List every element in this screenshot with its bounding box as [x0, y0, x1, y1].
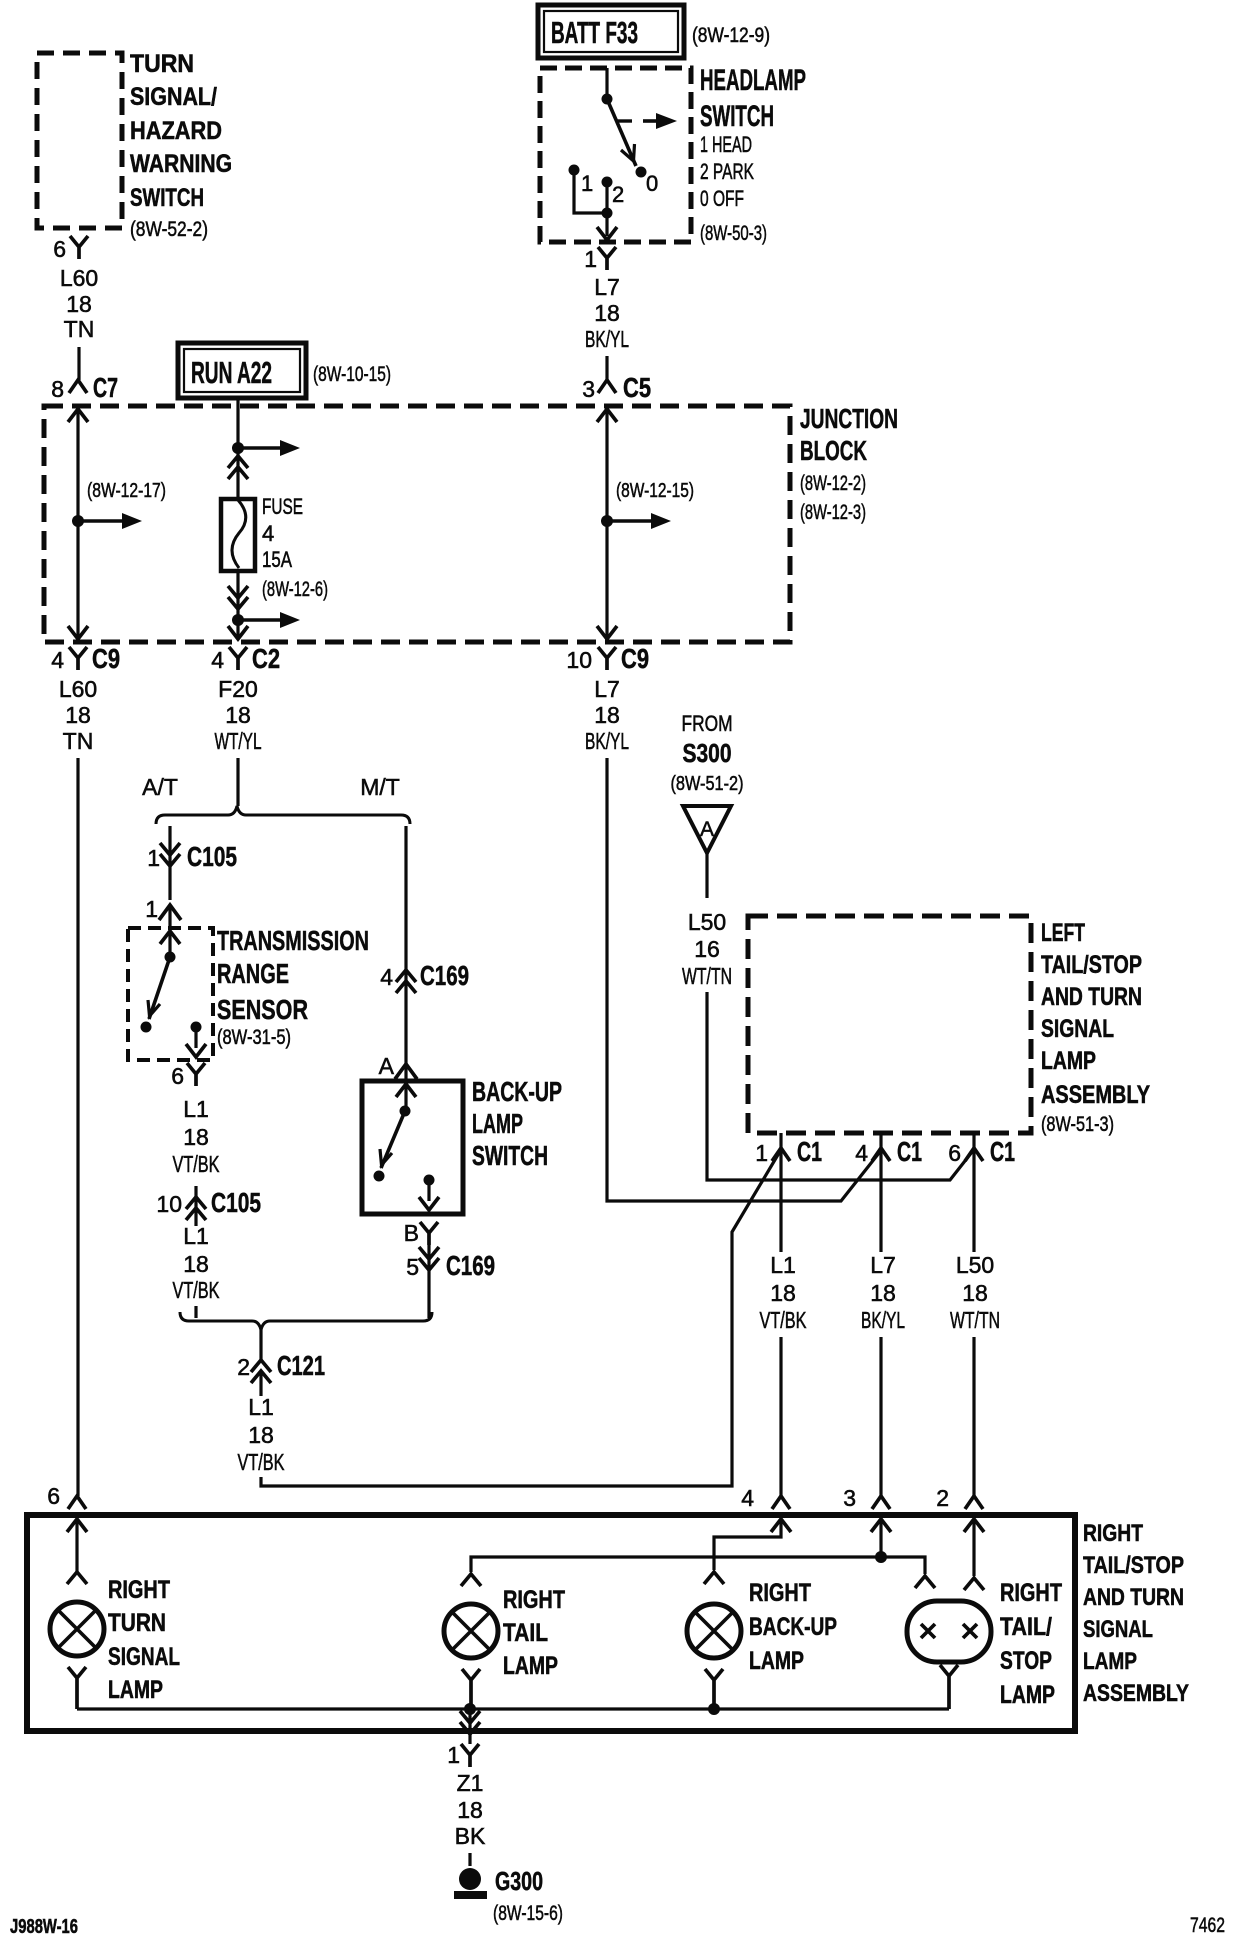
svg-text:TURN: TURN — [108, 1609, 166, 1637]
TRS common node — [165, 952, 176, 963]
svg-text:BK: BK — [455, 1823, 486, 1849]
connector symbol above fuse — [228, 456, 248, 479]
svg-text:(8W-51-3): (8W-51-3) — [1041, 1113, 1114, 1136]
connector 5 C169 — [419, 1247, 439, 1270]
wire M/T branch — [404, 826, 407, 1081]
svg-text:TRANSMISSION: TRANSMISSION — [217, 925, 369, 956]
back-up switch output contact — [424, 1175, 435, 1186]
svg-text:L1: L1 — [770, 1252, 796, 1278]
svg-text:VT/BK: VT/BK — [173, 1151, 220, 1177]
svg-text:(8W-12-6): (8W-12-6) — [262, 578, 328, 601]
turn signal/hazard warning switch (dashed box) — [37, 53, 122, 228]
svg-text:RANGE: RANGE — [217, 958, 289, 989]
svg-text:BACK-UP: BACK-UP — [472, 1076, 562, 1107]
svg-text:(8W-31-5): (8W-31-5) — [217, 1026, 291, 1049]
right tail/stop lamp (dual filament) — [907, 1601, 991, 1662]
transmission range sensor (dashed box) — [128, 928, 213, 1060]
ground bus junction (back-up lamp) — [708, 1703, 720, 1715]
headlamp switch common node — [602, 94, 613, 105]
svg-text:L60: L60 — [60, 265, 98, 291]
svg-text:BACK-UP: BACK-UP — [749, 1613, 837, 1641]
svg-text:L1: L1 — [183, 1223, 209, 1249]
wire L50 route — [707, 992, 972, 1180]
right turn signal lamp ground lead — [68, 1667, 86, 1709]
svg-text:SWITCH: SWITCH — [700, 100, 774, 133]
svg-text:FUSE: FUSE — [262, 494, 303, 519]
A/T M/T split brace — [156, 806, 410, 824]
svg-text:4: 4 — [262, 521, 274, 546]
svg-text:L7: L7 — [870, 1252, 896, 1278]
svg-text:ASSEMBLY: ASSEMBLY — [1041, 1081, 1150, 1109]
A/T M/T merge brace — [180, 1312, 432, 1330]
svg-text:18: 18 — [594, 300, 620, 326]
svg-text:10: 10 — [566, 647, 592, 673]
svg-text:TAIL: TAIL — [503, 1619, 548, 1647]
wire L1 from brace — [259, 1330, 262, 1396]
svg-text:5: 5 — [406, 1254, 419, 1280]
svg-text:6: 6 — [171, 1063, 184, 1089]
svg-text:LEFT: LEFT — [1041, 919, 1085, 947]
svg-text:STOP: STOP — [1000, 1647, 1052, 1675]
svg-text:SENSOR: SENSOR — [217, 994, 308, 1025]
svg-text:LAMP: LAMP — [1083, 1648, 1137, 1675]
TRS blade — [149, 957, 170, 1019]
connector 4 C169 — [396, 970, 416, 993]
junction block right branch node — [601, 515, 613, 527]
connector symbol below fuse — [228, 586, 248, 609]
wire A/T branch upper — [168, 826, 171, 900]
svg-text:Z1: Z1 — [457, 1770, 484, 1796]
svg-text:(8W-12-15): (8W-12-15) — [616, 480, 694, 502]
svg-text:0 OFF: 0 OFF — [700, 186, 744, 211]
svg-text:VT/BK: VT/BK — [238, 1449, 285, 1475]
svg-text:L50: L50 — [956, 1252, 994, 1278]
connector 1 C105 — [160, 843, 180, 866]
junction block left wire (C7 to C9) — [68, 409, 88, 422]
svg-text:6: 6 — [47, 1483, 60, 1509]
wire into transmission range sensor — [168, 905, 171, 928]
svg-text:C121: C121 — [277, 1350, 325, 1381]
TRS contact (moving end) — [141, 1022, 152, 1033]
svg-text:ASSEMBLY: ASSEMBLY — [1083, 1680, 1189, 1707]
wire L50 vertical segment — [972, 1148, 975, 1496]
svg-text:8: 8 — [51, 376, 64, 402]
TRS output wire — [194, 1031, 197, 1048]
connector 4 C1 — [879, 1133, 882, 1148]
svg-text:L1: L1 — [248, 1394, 274, 1420]
svg-text:J988W-16: J988W-16 — [10, 1916, 78, 1938]
back-up switch contact (moving end) — [374, 1171, 385, 1182]
connector 10 C105 — [186, 1197, 206, 1220]
svg-text:18: 18 — [770, 1280, 796, 1306]
svg-text:C5: C5 — [623, 372, 651, 403]
back-up switch input arrow — [396, 1084, 416, 1097]
svg-text:C1: C1 — [990, 1136, 1015, 1167]
svg-text:18: 18 — [870, 1280, 896, 1306]
svg-text:BK/YL: BK/YL — [585, 728, 629, 754]
headlamp terminal 2 — [602, 177, 613, 188]
connector 8 C7 — [69, 380, 87, 393]
svg-text:WT/TN: WT/TN — [950, 1307, 1000, 1333]
svg-text:WT/TN: WT/TN — [682, 963, 732, 989]
junction block left branch node — [72, 515, 84, 527]
svg-text:(8W-52-2): (8W-52-2) — [130, 218, 208, 241]
tail feed from pin 3 — [871, 1519, 891, 1532]
left tail/stop and turn signal lamp assembly (dashed box) — [748, 916, 1031, 1133]
svg-text:L7: L7 — [594, 274, 620, 300]
svg-text:4: 4 — [855, 1140, 868, 1166]
svg-text:RIGHT: RIGHT — [749, 1579, 811, 1607]
svg-text:(8W-51-2): (8W-51-2) — [671, 773, 744, 795]
svg-text:C7: C7 — [93, 372, 118, 403]
back-up switch blade — [381, 1111, 405, 1168]
svg-text:S300: S300 — [683, 738, 732, 768]
svg-text:RIGHT: RIGHT — [1083, 1520, 1143, 1547]
svg-text:L1: L1 — [183, 1096, 209, 1122]
ground drop wire — [468, 1709, 471, 1744]
right back-up lamp — [687, 1604, 741, 1658]
svg-text:18: 18 — [248, 1422, 274, 1448]
svg-text:HAZARD: HAZARD — [130, 117, 222, 145]
svg-text:RUN A22: RUN A22 — [191, 355, 272, 390]
svg-text:SIGNAL: SIGNAL — [108, 1643, 180, 1671]
wire L1 stub to brace — [194, 1306, 197, 1318]
svg-text:18: 18 — [65, 702, 91, 728]
svg-text:LAMP: LAMP — [1000, 1681, 1055, 1709]
svg-text:18: 18 — [66, 291, 92, 317]
svg-text:C169: C169 — [446, 1250, 495, 1281]
svg-text:18: 18 — [183, 1124, 209, 1150]
svg-text:VT/BK: VT/BK — [173, 1277, 220, 1303]
svg-text:18: 18 — [457, 1797, 483, 1823]
fuse feed arrow — [238, 446, 284, 450]
fuse output arrow — [238, 618, 284, 622]
connector 2 C121 — [251, 1360, 271, 1383]
fuse 4 15A — [221, 499, 255, 571]
right tail/stop and turn signal lamp assembly (box) — [27, 1515, 1075, 1731]
svg-text:A: A — [379, 1053, 395, 1079]
svg-text:18: 18 — [183, 1251, 209, 1277]
wire F20 stub — [236, 758, 239, 806]
connector symbol (ground drop) — [460, 1711, 480, 1734]
svg-text:B: B — [404, 1220, 419, 1246]
svg-text:BATT F33: BATT F33 — [551, 15, 638, 50]
svg-text:(8W-12-2): (8W-12-2) — [800, 472, 866, 495]
fuse output node — [232, 614, 244, 626]
svg-text:1: 1 — [584, 246, 597, 272]
wire L7 long segment — [607, 758, 879, 1201]
right tail/stop lamp ground lead — [940, 1665, 958, 1709]
svg-text:(8W-12-17): (8W-12-17) — [87, 480, 166, 502]
svg-text:1: 1 — [145, 896, 158, 922]
svg-text:6: 6 — [948, 1140, 961, 1166]
back-up switch output wire — [427, 1184, 430, 1201]
svg-text:3: 3 — [582, 376, 595, 402]
svg-text:RIGHT: RIGHT — [108, 1576, 170, 1604]
wire to fuse — [236, 448, 239, 499]
right turn signal lamp — [50, 1602, 104, 1656]
svg-text:(8W-12-3): (8W-12-3) — [800, 501, 866, 524]
svg-text:SWITCH: SWITCH — [472, 1140, 548, 1171]
svg-text:TN: TN — [64, 316, 95, 342]
headlamp switch motion arrow — [617, 119, 632, 122]
splice S300 triangle — [683, 806, 731, 853]
svg-text:2: 2 — [936, 1485, 949, 1511]
tail/stop lamp left connector — [915, 1576, 935, 1588]
ground bus — [77, 1707, 949, 1710]
tail feed junction — [875, 1551, 887, 1563]
wire Z1 stub — [468, 1853, 471, 1866]
svg-text:18: 18 — [962, 1280, 988, 1306]
wire L60 segment — [77, 347, 80, 380]
svg-text:RIGHT: RIGHT — [1000, 1579, 1062, 1607]
headlamp terminal 0 — [636, 167, 647, 178]
svg-text:SIGNAL/: SIGNAL/ — [130, 83, 217, 111]
headlamp output arrow — [597, 227, 617, 240]
svg-text:4: 4 — [211, 647, 224, 673]
wire RUN A22 to junction block — [236, 398, 239, 443]
svg-text:VT/BK: VT/BK — [760, 1307, 807, 1333]
svg-text:4: 4 — [741, 1485, 754, 1511]
svg-text:G300: G300 — [495, 1866, 543, 1896]
wire L1 vertical segment — [779, 1148, 782, 1496]
svg-text:RIGHT: RIGHT — [503, 1586, 565, 1614]
connector 3 C5 — [598, 380, 616, 393]
wire L7 vertical segment — [879, 1148, 882, 1496]
svg-text:1: 1 — [147, 845, 160, 871]
svg-text:4: 4 — [51, 647, 64, 673]
wire L7 segment (to junction block) — [605, 356, 608, 380]
svg-text:1: 1 — [447, 1742, 460, 1768]
svg-text:2 PARK: 2 PARK — [700, 159, 754, 184]
ground bus junction (tail lamp) — [464, 1703, 476, 1715]
headlamp switch feed wire — [605, 68, 608, 96]
headlamp switch blade — [607, 99, 636, 166]
right back-up lamp ground lead — [705, 1669, 723, 1709]
svg-text:7462: 7462 — [1190, 1914, 1225, 1937]
right back-up lamp connector — [704, 1572, 724, 1584]
svg-text:TN: TN — [63, 728, 94, 754]
svg-text:C2: C2 — [252, 643, 280, 674]
svg-text:A/T: A/T — [142, 774, 178, 800]
svg-text:15A: 15A — [262, 547, 292, 572]
svg-text:TURN: TURN — [130, 50, 194, 78]
right turn signal lamp connector — [67, 1572, 87, 1584]
headlamp terminal wiring — [574, 173, 607, 236]
svg-text:10: 10 — [156, 1191, 182, 1217]
svg-text:SIGNAL: SIGNAL — [1041, 1015, 1114, 1043]
svg-text:LAMP: LAMP — [472, 1108, 523, 1139]
svg-text:2: 2 — [612, 182, 624, 207]
svg-text:SWITCH: SWITCH — [130, 184, 204, 212]
tail feed bus — [471, 1557, 925, 1574]
svg-text:TAIL/STOP: TAIL/STOP — [1083, 1552, 1184, 1579]
fuse feed node — [232, 442, 244, 454]
svg-text:M/T: M/T — [360, 774, 400, 800]
wire B to brace — [427, 1245, 430, 1318]
svg-text:(8W-15-6): (8W-15-6) — [493, 1902, 563, 1925]
svg-text:TAIL/: TAIL/ — [1000, 1613, 1052, 1641]
svg-text:A: A — [700, 818, 714, 841]
svg-text:18: 18 — [594, 702, 620, 728]
svg-text:(8W-10-15): (8W-10-15) — [313, 363, 391, 386]
svg-text:C1: C1 — [897, 1136, 922, 1167]
svg-text:BK/YL: BK/YL — [585, 326, 629, 352]
junction block left branch arrow — [78, 519, 126, 523]
connector 1 C1 — [779, 1133, 782, 1148]
svg-text:TAIL/STOP: TAIL/STOP — [1041, 951, 1142, 979]
svg-text:1: 1 — [581, 171, 593, 196]
svg-text:LAMP: LAMP — [108, 1676, 163, 1704]
svg-text:0: 0 — [646, 171, 658, 196]
svg-text:C169: C169 — [420, 960, 469, 991]
junction block right branch arrow — [607, 519, 655, 523]
wire L60 long segment — [76, 758, 79, 1496]
junction block (dashed box) — [44, 406, 790, 642]
svg-text:LAMP: LAMP — [749, 1647, 804, 1675]
junction block right wire (C5 to C9) — [597, 409, 617, 422]
svg-text:BLOCK: BLOCK — [800, 435, 867, 466]
right turn signal feed — [67, 1519, 87, 1532]
wire below fuse — [236, 571, 239, 639]
svg-text:SIGNAL: SIGNAL — [1083, 1616, 1153, 1643]
svg-text:C1: C1 — [797, 1136, 822, 1167]
svg-text:WT/YL: WT/YL — [215, 728, 262, 754]
svg-text:16: 16 — [694, 936, 720, 962]
tail/stop lamp right connector — [964, 1578, 984, 1590]
right tail lamp ground lead — [462, 1669, 480, 1709]
svg-text:3: 3 — [843, 1485, 856, 1511]
right tail lamp — [444, 1604, 498, 1658]
wire L1 segment (TRS) — [194, 1186, 197, 1226]
right tail lamp connector — [461, 1574, 481, 1586]
svg-text:18: 18 — [225, 702, 251, 728]
svg-text:(8W-12-9): (8W-12-9) — [692, 24, 770, 47]
svg-text:L50: L50 — [688, 909, 726, 935]
svg-text:C105: C105 — [187, 841, 237, 872]
stop feed from pin 2 — [964, 1519, 984, 1532]
svg-text:F20: F20 — [218, 676, 258, 702]
svg-text:C105: C105 — [211, 1187, 261, 1218]
connector 6 C1 — [972, 1133, 975, 1148]
svg-text:1: 1 — [755, 1140, 768, 1166]
svg-text:AND TURN: AND TURN — [1041, 983, 1142, 1011]
ground G300 — [459, 1868, 481, 1890]
svg-text:LAMP: LAMP — [1041, 1047, 1096, 1075]
svg-text:L7: L7 — [594, 676, 620, 702]
fuse output down arrow — [228, 626, 248, 639]
back-up switch common node — [400, 1106, 411, 1117]
svg-text:BK/YL: BK/YL — [861, 1307, 905, 1333]
svg-text:JUNCTION: JUNCTION — [800, 403, 898, 434]
svg-text:2: 2 — [237, 1354, 250, 1380]
ignition feed RUN A22 (double box) — [178, 343, 306, 398]
TRS input arrow — [160, 931, 180, 944]
wire L50 from S300 — [705, 853, 708, 898]
back-up lamp switch (box) — [362, 1081, 463, 1214]
TRS output contact — [191, 1022, 202, 1033]
svg-text:FROM: FROM — [682, 711, 733, 736]
svg-text:WARNING: WARNING — [130, 150, 232, 178]
svg-text:C9: C9 — [621, 643, 649, 674]
back-up feed from pin 4 — [771, 1519, 791, 1532]
wire L1 route to lamp assemblies — [261, 1153, 779, 1486]
svg-text:1 HEAD: 1 HEAD — [700, 132, 752, 157]
svg-text:(8W-50-3): (8W-50-3) — [700, 222, 767, 245]
svg-text:L60: L60 — [59, 676, 97, 702]
svg-text:LAMP: LAMP — [503, 1652, 558, 1680]
svg-text:HEADLAMP: HEADLAMP — [700, 64, 806, 97]
svg-text:4: 4 — [380, 964, 393, 990]
svg-text:C9: C9 — [92, 643, 120, 674]
headlamp switch (dashed box) — [540, 68, 691, 242]
svg-text:6: 6 — [53, 236, 66, 262]
headlamp terminal 1 — [569, 165, 580, 176]
headlamp junction — [602, 208, 613, 219]
fuse feed BATT F33 (double box) — [538, 5, 684, 58]
svg-text:AND TURN: AND TURN — [1083, 1584, 1184, 1611]
